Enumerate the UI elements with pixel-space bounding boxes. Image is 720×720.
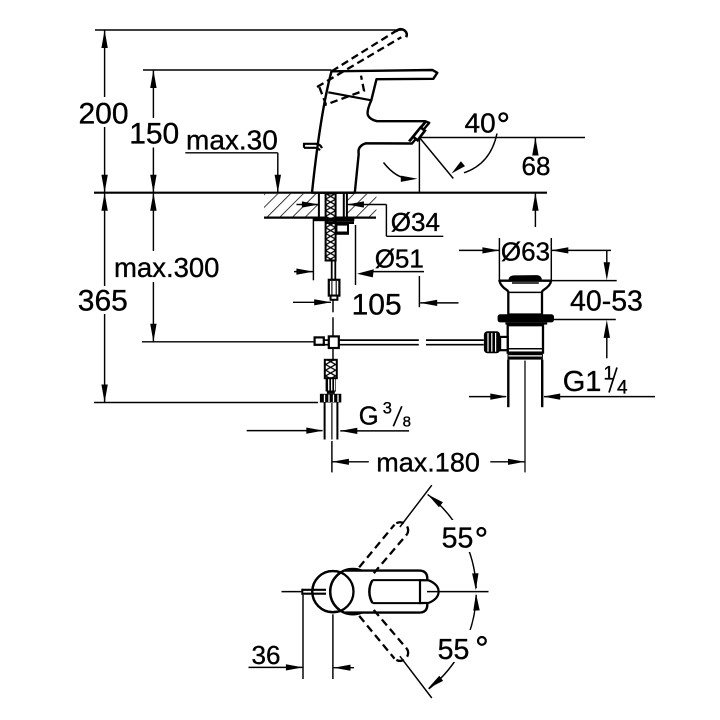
- aerator insert: [413, 127, 425, 140]
- dimension 365 vertical line: [101, 193, 107, 403]
- drain flange body: [499, 281, 551, 315]
- dimension G1-1/4 arrows: [469, 394, 655, 400]
- top view pop-up rod bar: [302, 589, 326, 595]
- raised cartridge dashed block: [319, 76, 364, 105]
- drain body cylinder: [508, 325, 543, 352]
- dimension max.30 leader: [185, 153, 281, 193]
- svg-text:max.300: max.300: [114, 252, 219, 283]
- dashed lever rotated up: [359, 522, 408, 573]
- svg-text:36: 36: [252, 640, 281, 670]
- 40-degree arc right with arrow: [452, 134, 498, 174]
- dimension 105 left arrow: [293, 299, 331, 305]
- svg-text:365: 365: [78, 284, 128, 317]
- arc upper arrowheads: [428, 494, 479, 590]
- faucet cartridge joint line: [328, 92, 371, 100]
- drain flange cylinder line: [508, 291, 542, 293]
- dimension ref line top (200): [95, 29, 402, 31]
- mounting nut bar: [325, 221, 354, 224]
- label 40 degrees: [465, 107, 508, 138]
- dimension O51 arrows and underline: [294, 269, 424, 278]
- label 55 degrees upper: [436, 520, 491, 554]
- rod cross fitting left block: [315, 337, 324, 344]
- aerator face second line: [409, 121, 426, 141]
- deck hole left edge: [318, 193, 320, 218]
- raised handle dashed line lower: [317, 37, 401, 87]
- svg-text:68: 68: [522, 151, 551, 181]
- threaded shank with braid texture: [326, 194, 336, 261]
- 40-degree horizontal reference line: [419, 137, 585, 139]
- 55-degree ray down: [400, 656, 432, 698]
- 40-53 lower reference line: [554, 319, 616, 321]
- top view escutcheon circle: [312, 571, 353, 612]
- svg-text:3: 3: [383, 400, 392, 418]
- dimension O34 arrows and leader: [297, 201, 444, 236]
- svg-text:Ø51: Ø51: [375, 243, 424, 273]
- aerator face inner line: [410, 121, 427, 141]
- top view lever slab: [344, 571, 427, 613]
- rod cross fitting center block: [329, 336, 339, 348]
- dimension O51 extension left: [312, 219, 314, 281]
- lower hose step: [327, 392, 335, 394]
- svg-text:40-53: 40-53: [570, 285, 643, 317]
- faucet body side view: [312, 70, 437, 193]
- svg-text:55: 55: [438, 634, 470, 666]
- svg-text:200: 200: [79, 98, 129, 131]
- mounting washer bar: [314, 218, 355, 222]
- dashed lever rotated down: [359, 610, 408, 661]
- dimension G3/8 arrows: [247, 428, 409, 435]
- dimension 36 extension lines: [303, 595, 333, 679]
- top view lever inner edge top: [372, 579, 420, 581]
- top view lever bullet tip: [420, 580, 439, 603]
- label G3/8: [359, 400, 411, 431]
- drain plug brim line: [512, 282, 539, 284]
- mounting bracket base: [336, 233, 349, 235]
- dimension ref line (150): [143, 69, 332, 71]
- pop-up rod vertical segments: [332, 300, 334, 360]
- dimension 40-53 lower arrow: [604, 320, 610, 358]
- svg-text:55: 55: [442, 522, 474, 554]
- deck hole right edge: [346, 193, 348, 218]
- 40-degree diagonal reference line: [419, 138, 453, 179]
- raised handle dashed line upper: [332, 31, 397, 72]
- countertop deck top surface line: [94, 192, 547, 194]
- svg-text:G1: G1: [563, 366, 602, 398]
- horizontal actuating rod: [324, 340, 484, 345]
- top view escutcheon circle outline redraw: [312, 571, 353, 612]
- pop-up rod knob: [304, 144, 322, 151]
- 55-degree arc lower: [429, 595, 476, 689]
- dimension 40-53 upper arrow: [604, 250, 610, 280]
- top view centerline left: [282, 591, 303, 593]
- drain knob neck: [500, 337, 508, 350]
- drain sub-gasket band: [505, 322, 547, 324]
- svg-text:4: 4: [617, 378, 628, 399]
- drain knurled knob: [484, 331, 500, 353]
- 40-53 upper reference line: [551, 280, 617, 282]
- mounting bracket: [336, 225, 348, 233]
- label G1-1/4: [563, 364, 628, 399]
- 365 reference line: [94, 402, 318, 404]
- svg-text:40: 40: [465, 107, 496, 138]
- countertop deck hatching right: [347, 194, 377, 217]
- dimension O63 extension lines: [499, 238, 551, 280]
- raised handle tip: [396, 29, 407, 37]
- supply pipe below nut: [325, 403, 338, 440]
- dimension 68 vertical with arrows: [532, 138, 538, 228]
- hose end stub: [331, 296, 338, 300]
- countertop deck bottom line: [264, 217, 376, 219]
- 55-degree arc upper: [428, 494, 477, 588]
- supply hose tube: [332, 261, 336, 280]
- hose end fitting: [329, 280, 340, 296]
- countertop deck hatching left: [264, 194, 319, 217]
- drain body lower line: [508, 348, 543, 350]
- drain tailpipe: [508, 360, 542, 408]
- drain plug cap: [509, 275, 542, 281]
- drain gasket: [498, 314, 554, 322]
- svg-text:G: G: [359, 403, 379, 431]
- dimension max.300 vertical line: [150, 193, 156, 342]
- svg-text:150: 150: [129, 118, 179, 151]
- label 55 degrees lower: [433, 630, 491, 666]
- svg-text:8: 8: [403, 414, 411, 431]
- 40-degree rotation arc left with arrow: [384, 163, 418, 182]
- svg-text:max.180: max.180: [376, 448, 480, 478]
- svg-text:max.30: max.30: [186, 124, 278, 155]
- svg-text:Ø34: Ø34: [391, 207, 440, 237]
- 55-degree ray up: [400, 485, 432, 527]
- lower hose fitting ridged: [326, 378, 336, 391]
- 40-degree spout reference vertical line: [418, 138, 420, 193]
- dimension 36 arrows: [249, 664, 355, 671]
- top view lever inner edge bottom: [372, 602, 420, 604]
- dimension max.180: [332, 441, 525, 472]
- lower supply hose braid: [325, 360, 337, 378]
- svg-text:105: 105: [352, 289, 402, 322]
- top view body circle: [330, 569, 375, 614]
- svg-text:Ø63: Ø63: [501, 237, 550, 267]
- top view body circle right arc: [369, 580, 372, 603]
- G3/8 connection nut: [320, 394, 341, 403]
- dimension O63 arrows: [459, 247, 611, 253]
- arc lower arrowheads: [428, 593, 480, 688]
- drain center rod line: [524, 361, 526, 473]
- dimension 200 vertical line: [101, 30, 107, 193]
- dimension O51 extension right: [355, 225, 357, 285]
- max.300 reference line: [142, 341, 315, 343]
- drain bottom cap: [508, 353, 543, 360]
- top view centerline right: [427, 591, 489, 593]
- shank plain tube right edge: [343, 194, 345, 218]
- dimension 150 vertical line: [150, 70, 156, 193]
- dimension 105 right arrow and extension: [419, 276, 458, 307]
